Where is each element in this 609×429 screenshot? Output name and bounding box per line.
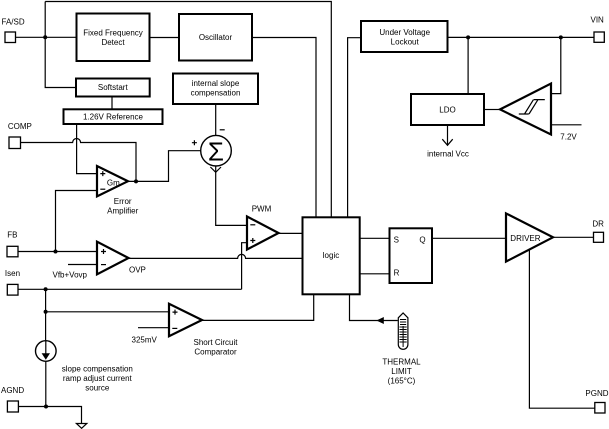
svg-text:R: R [394,269,400,278]
wire 325mV stub to short circuit comparator - input [132,328,170,345]
pin FB [7,231,18,257]
pin FA/SD [2,18,25,43]
wire OVP output to logic (hop over Isen line) [129,254,303,258]
wire Isen node down to current source [45,289,47,340]
svg-text:VIN: VIN [591,16,605,25]
wire FB to OVP + input [18,251,97,253]
wire DRIVER to PGND [529,250,594,409]
svg-text:Error: Error [114,197,132,206]
svg-text:ramp adjust current: ramp adjust current [63,374,133,383]
svg-text:Under Voltage: Under Voltage [379,28,430,37]
pin DR [592,219,604,242]
svg-text:Gm: Gm [107,178,120,187]
thermal limit sensor [382,313,421,385]
junction Isen node [44,287,48,291]
ground [76,424,86,429]
svg-text:Amplifier: Amplifier [107,207,138,216]
svg-text:source: source [85,384,110,393]
svg-text:S: S [394,235,399,244]
svg-text:Comparator: Comparator [194,348,237,357]
wire PWM output to logic [279,232,303,234]
wire Under Voltage Lockout to logic [348,38,361,218]
junction FB node [54,250,58,254]
wire tap to short circuit comparator + input [46,311,169,313]
svg-text:PGND: PGND [585,389,608,398]
svg-text:internal Vcc: internal Vcc [427,150,469,159]
svg-text:AGND: AGND [1,386,24,395]
wire top bus to logic [45,2,331,218]
svg-text:Fixed Frequency: Fixed Frequency [83,29,143,38]
wire Q output to DRIVER [432,237,506,239]
wire LDO to hysteresis comparator [484,109,500,111]
svg-text:DRIVER: DRIVER [510,234,540,243]
pin AGND [1,386,24,412]
summer sigma [192,130,231,167]
svg-text:Oscillator: Oscillator [199,33,233,42]
wire 1.26V Reference to Gm + input [77,124,97,174]
junction VIN to hysteresis comparator [559,35,563,39]
wire Gm output to summer + input [128,151,201,182]
op-amp hysteresis comparator [500,84,551,135]
svg-text:THERMAL: THERMAL [382,357,421,366]
wire Under Voltage Lockout to VIN [448,36,595,38]
block Oscillator [179,14,252,61]
svg-text:1.26V Reference: 1.26V Reference [83,113,144,122]
svg-text:PWM: PWM [252,205,272,214]
block Under Voltage Lockout [361,21,448,52]
block internal slope compensation [173,74,258,105]
block logic [303,217,360,294]
svg-text:internal slope: internal slope [192,79,240,88]
op-amp PWM comparator [247,205,279,250]
svg-text:OVP: OVP [129,266,146,275]
svg-text:logic: logic [323,251,339,260]
wire Fixed Frequency Detect to Oscillator [150,37,180,39]
wire Gm - input to FB node [56,191,98,252]
wire VIN to hysteresis comparator [551,37,561,93]
block Softstart [76,79,150,97]
block 1.26V Reference [64,109,163,124]
junction short circuit comparator tap [44,310,48,314]
wire Vfb+Vovp stub to OVP - input [53,265,98,280]
wire logic to thermal limit [350,294,398,324]
svg-text:Σ: Σ [208,136,224,166]
op-amp DRIVER [506,213,553,261]
svg-text:FB: FB [7,231,17,240]
svg-text:Softstart: Softstart [98,83,129,92]
svg-text:Lockout: Lockout [391,38,420,47]
block Fixed Frequency Detect [77,14,150,62]
wire FA/SD node to Softstart [45,2,76,88]
svg-text:COMP: COMP [8,122,32,131]
wire DRIVER to DR pin [553,236,594,238]
op-amp Gm error amplifier [97,166,139,216]
op-amp OVP comparator [97,242,146,275]
svg-text:Short Circuit: Short Circuit [193,338,238,347]
junction FA/SD node [43,35,47,39]
wire logic S output [360,237,390,239]
wire Isen pin to PWM [18,288,242,290]
svg-text:LDO: LDO [439,105,455,114]
wire summer output to PWM - input [210,166,247,226]
svg-text:slope compensation: slope compensation [62,365,133,374]
junction AGND node [44,405,48,409]
wire Isen to PWM + input [242,243,247,290]
wire internal slope compensation to summer [215,104,217,136]
wire AGND to ground [18,407,81,424]
op-amp Short Circuit Comparator [169,304,238,357]
svg-text:Vfb+Vovp: Vfb+Vovp [53,271,88,280]
wire 7.2V reference stub [551,125,582,142]
pin VIN [591,16,605,43]
pin Isen [5,269,20,295]
wire COMP to Gm output (hop over reference line) [21,139,137,182]
wire VIN to LDO [467,37,469,94]
svg-text:DR: DR [592,219,604,228]
wire current source to AGND [45,361,47,406]
svg-text:Q: Q [419,235,425,244]
svg-text:7.2V: 7.2V [560,133,577,142]
svg-text:LIMIT: LIMIT [391,367,412,376]
wire short circuit comparator output to logic [202,294,314,320]
pin COMP [8,122,32,149]
pin PGND [585,389,608,413]
svg-text:Detect: Detect [101,38,125,47]
junction Gm output node [134,179,138,183]
wire logic R output [360,273,390,275]
svg-text:325mV: 325mV [132,335,158,344]
current source slope compensation [36,341,133,393]
svg-text:(165°C): (165°C) [388,376,416,385]
svg-text:compensation: compensation [191,89,241,98]
wire Softstart to 1.26V Reference [111,97,113,110]
junction VIN to LDO [466,35,470,39]
block LDO [411,94,484,125]
wire Oscillator to logic [252,38,316,218]
svg-text:Isen: Isen [5,269,20,278]
block SR latch [390,228,433,283]
wire FA/SD pin to Fixed Frequency Detect [16,36,77,38]
wire LDO to internal Vcc arrow [427,125,469,159]
svg-text:FA/SD: FA/SD [2,18,25,27]
